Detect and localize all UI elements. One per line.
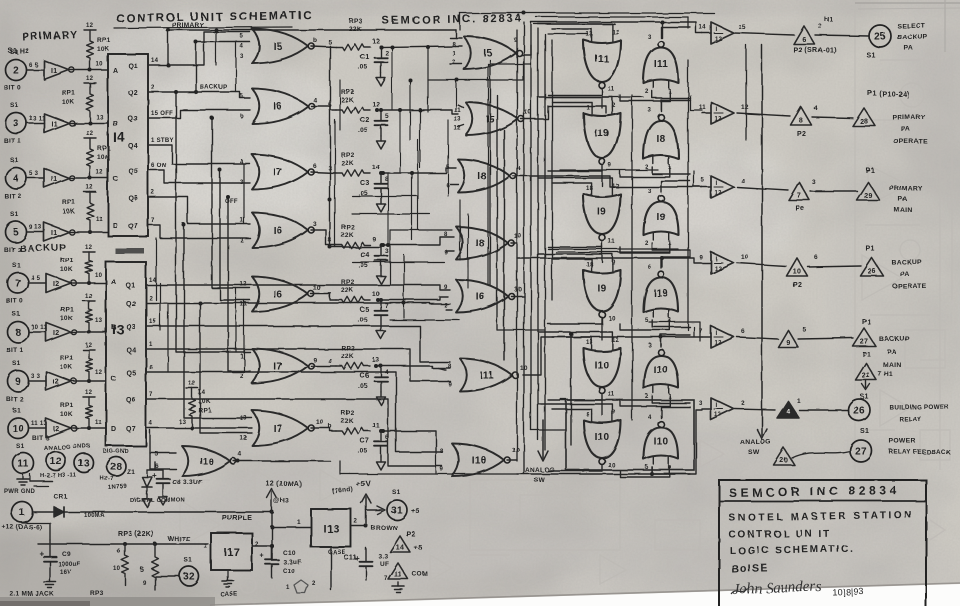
wire <box>311 365 336 367</box>
svg-text:3: 3 <box>648 343 652 349</box>
resistor RP2 row C3 <box>336 170 370 176</box>
wire <box>560 169 658 171</box>
wire <box>352 195 418 197</box>
svg-text:2: 2 <box>151 190 155 196</box>
or-gate I7 b <box>252 349 308 384</box>
svg-text:P1: P1 <box>862 319 871 326</box>
ground CASE I17 <box>227 577 229 581</box>
wire <box>652 410 702 474</box>
wire <box>447 120 449 196</box>
svg-text:PA: PA <box>887 349 897 356</box>
svg-text:P1: P1 <box>866 246 875 253</box>
wire <box>523 22 525 474</box>
wire <box>694 171 702 187</box>
svg-text:2.1 MM JACK: 2.1 MM JACK <box>10 591 54 598</box>
wire <box>552 183 592 188</box>
wire <box>538 178 612 188</box>
node <box>398 108 402 112</box>
wire <box>601 323 603 340</box>
svg-text:2: 2 <box>645 394 649 400</box>
svg-text:C3: C3 <box>360 180 370 187</box>
wire <box>552 102 592 107</box>
svg-text:1: 1 <box>297 519 301 526</box>
wire <box>148 225 250 238</box>
wire <box>311 172 336 173</box>
svg-text:CONTROL UN IT: CONTROL UN IT <box>729 528 831 541</box>
svg-text:2: 2 <box>151 85 155 91</box>
svg-text:2: 2 <box>444 303 448 309</box>
svg-text:ANALOG: ANALOG <box>525 467 555 474</box>
svg-text:PRIMARY: PRIMARY <box>172 22 204 29</box>
svg-text:PRIMARY: PRIMARY <box>22 29 79 43</box>
wire <box>551 40 553 300</box>
svg-text:7: 7 <box>384 576 388 582</box>
svg-text:PA: PA <box>900 271 910 278</box>
wire <box>311 294 336 300</box>
svg-text:BACKUP: BACKUP <box>891 259 922 266</box>
svg-text:RP1: RP1 <box>97 37 111 44</box>
wire curvy 20 to 27 <box>792 451 850 458</box>
node <box>418 108 422 112</box>
svg-text:RELAY: RELAY <box>899 416 922 423</box>
wire <box>146 399 442 466</box>
capacitor C10 <box>271 546 273 560</box>
wire <box>517 258 702 263</box>
node <box>88 230 92 234</box>
wire <box>523 337 702 375</box>
svg-text:5: 5 <box>240 34 244 40</box>
nor-gate I9 pair3L <box>584 194 621 234</box>
svg-text:I1θ: I1θ <box>472 456 487 467</box>
svg-text:12: 12 <box>86 131 94 137</box>
wire <box>450 183 458 185</box>
svg-text:13: 13 <box>372 357 380 364</box>
svg-text:10K: 10K <box>97 46 110 53</box>
jack tip marks <box>30 480 52 482</box>
wire <box>399 110 401 173</box>
svg-text:6 ON: 6 ON <box>151 163 166 169</box>
svg-text:BROWN: BROWN <box>371 525 398 532</box>
triangle Pe row3 <box>789 182 810 200</box>
wire <box>196 42 250 92</box>
svg-text:C4: C4 <box>360 252 370 259</box>
svg-text:9: 9 <box>143 581 147 587</box>
svg-text:Q6: Q6 <box>128 195 138 202</box>
wire <box>689 250 691 258</box>
svg-text:PRIMARY: PRIMARY <box>892 114 925 121</box>
svg-text:12: 12 <box>86 23 94 29</box>
wire <box>71 122 109 124</box>
wire <box>417 140 419 230</box>
nor-gate I10 pair5L <box>584 348 621 387</box>
node <box>660 256 664 260</box>
wire <box>548 33 588 35</box>
svg-text:10: 10 <box>514 233 522 240</box>
wire <box>271 512 273 560</box>
wire <box>446 309 452 311</box>
node <box>364 524 368 528</box>
wire <box>155 238 157 300</box>
wire <box>552 29 592 34</box>
svg-text:A: A <box>111 279 116 286</box>
wire <box>381 46 455 47</box>
svg-text:S1: S1 <box>10 157 19 164</box>
wire <box>168 32 250 65</box>
wire <box>661 407 690 418</box>
bottom white strip <box>210 584 960 606</box>
svg-text:6: 6 <box>313 163 317 170</box>
resistor RP2 row C7 <box>336 428 370 434</box>
triangle 26 out4 <box>861 258 884 276</box>
node <box>569 332 573 336</box>
arrow below 21 <box>865 381 867 388</box>
svg-text:2: 2 <box>255 542 259 548</box>
triangle 20 <box>774 448 795 465</box>
wire <box>168 30 456 65</box>
svg-text:12: 12 <box>715 191 723 197</box>
IC I13 <box>311 509 351 547</box>
svg-text:10K: 10K <box>60 411 73 418</box>
wire <box>503 130 505 360</box>
node <box>214 28 218 32</box>
capacitor C5 <box>380 300 382 311</box>
svg-text:b: b <box>240 114 244 120</box>
svg-text:10: 10 <box>372 291 380 298</box>
ground arrow C5 <box>380 326 382 331</box>
wire <box>652 320 690 327</box>
svg-text:5: 5 <box>802 326 806 333</box>
buffer I12 row2 <box>711 102 734 124</box>
ground arrow C8 <box>162 492 164 497</box>
svg-text:S1 H2: S1 H2 <box>8 48 29 55</box>
svg-text:6: 6 <box>814 254 818 261</box>
svg-text:RELAY FEEDBACK: RELAY FEEDBACK <box>889 449 951 456</box>
wire <box>459 200 461 260</box>
svg-text:13: 13 <box>179 420 187 426</box>
svg-text:I2: I2 <box>53 330 59 337</box>
svg-text:RP3: RP3 <box>90 590 104 597</box>
wire <box>702 186 711 188</box>
node <box>166 63 170 67</box>
svg-text:2: 2 <box>354 519 358 525</box>
wire <box>148 197 250 224</box>
svg-text:PRIMARY: PRIMARY <box>889 185 922 192</box>
resistor RP3 a <box>122 544 129 585</box>
wire <box>734 33 794 35</box>
wire <box>167 303 169 372</box>
svg-text:C1: C1 <box>360 54 370 61</box>
wire <box>511 295 524 297</box>
node <box>270 544 274 548</box>
wire <box>351 525 366 527</box>
wire <box>536 16 688 18</box>
node <box>379 171 383 175</box>
inverter I2 row10 <box>46 419 71 438</box>
svg-text:@H3: @H3 <box>274 498 290 505</box>
svg-text:22K: 22K <box>341 97 354 104</box>
wire <box>311 46 336 47</box>
svg-text:2: 2 <box>312 581 316 587</box>
wire <box>548 323 602 325</box>
svg-text:6: 6 <box>149 365 153 371</box>
wire <box>737 187 788 190</box>
svg-text:D: D <box>113 223 118 230</box>
svg-text:Q5: Q5 <box>126 370 136 377</box>
nor-gate I10 pair6R <box>644 428 679 460</box>
svg-text:20: 20 <box>780 458 788 465</box>
capacitor C7 <box>380 431 382 442</box>
wire <box>458 125 464 127</box>
wire <box>458 105 464 108</box>
node <box>270 544 274 548</box>
resistor RP2 row C6 <box>336 363 370 369</box>
svg-text:C10: C10 <box>283 550 296 557</box>
or-gate I8 c2a <box>458 160 510 193</box>
svg-text:+: + <box>260 553 264 560</box>
wire <box>548 399 602 401</box>
wire <box>620 396 670 406</box>
or-gate I5 c2a <box>464 37 516 70</box>
wire <box>649 322 700 341</box>
svg-text:RP1: RP1 <box>60 306 74 313</box>
svg-text:C5: C5 <box>360 307 370 314</box>
node <box>379 108 383 112</box>
wire <box>220 170 250 300</box>
svg-text:.05: .05 <box>358 383 368 390</box>
svg-text:1000uF: 1000uF <box>58 562 81 568</box>
svg-text:RP3 (22K): RP3 (22K) <box>118 531 154 538</box>
nor-gate I11 pair1L <box>584 40 621 82</box>
wire <box>428 62 523 80</box>
wire <box>330 246 381 248</box>
wire <box>660 337 662 347</box>
wire <box>334 120 336 247</box>
resistor RP1 row5 <box>84 191 96 193</box>
svg-text:31: 31 <box>391 506 403 517</box>
node <box>410 171 414 175</box>
wire <box>33 511 54 513</box>
node <box>190 426 194 430</box>
svg-text:8: 8 <box>444 232 448 238</box>
svg-text:2: 2 <box>818 23 822 30</box>
wire <box>702 32 711 34</box>
inverter I1 row3 <box>44 114 69 133</box>
svg-text:1: 1 <box>452 51 456 57</box>
svg-text:7: 7 <box>15 279 21 290</box>
svg-text:27: 27 <box>860 339 868 346</box>
svg-text:I9: I9 <box>598 207 607 218</box>
triangle 14 +5 <box>390 536 410 552</box>
ground arrow C7 <box>380 457 382 462</box>
svg-text:John Saunders: John Saunders <box>733 579 822 598</box>
svg-text:11: 11 <box>96 217 103 223</box>
wire <box>497 329 545 331</box>
svg-text:9: 9 <box>699 255 703 261</box>
svg-text:Q4: Q4 <box>126 347 136 354</box>
wire <box>620 243 670 253</box>
svg-text:2: 2 <box>385 50 389 57</box>
svg-text:D: D <box>111 426 116 433</box>
wire <box>339 80 341 130</box>
wire <box>693 327 695 337</box>
wire <box>71 177 109 179</box>
svg-text:RP1: RP1 <box>62 199 76 206</box>
svg-text:I7: I7 <box>273 424 282 435</box>
svg-text:S1: S1 <box>12 262 21 269</box>
wire <box>455 45 462 47</box>
svg-text:C9: C9 <box>62 551 71 558</box>
svg-text:12 (10MA): 12 (10MA) <box>266 481 302 488</box>
svg-text:C8 3.3UF: C8 3.3UF <box>172 479 202 486</box>
svg-text:+5V: +5V <box>356 479 372 489</box>
connector 28 <box>107 457 126 476</box>
svg-text:10K: 10K <box>62 99 75 106</box>
svg-text:3: 3 <box>648 35 652 41</box>
wire <box>531 22 702 55</box>
wire <box>661 181 690 192</box>
svg-text:RP2: RP2 <box>341 152 355 159</box>
svg-text:Q7: Q7 <box>128 223 138 230</box>
svg-text:WHITE: WHITE <box>168 536 191 543</box>
svg-text:10 11: 10 11 <box>31 325 48 331</box>
wire <box>538 97 612 107</box>
capacitor C11 <box>365 548 367 562</box>
wire <box>387 173 389 245</box>
wire <box>352 261 444 263</box>
node <box>379 45 383 49</box>
svg-text:1: 1 <box>149 342 153 348</box>
resistor RP1 row3 <box>84 82 96 84</box>
svg-text:RP2: RP2 <box>341 89 355 96</box>
wire <box>419 110 421 168</box>
wire <box>548 96 643 98</box>
svg-text:MAIN: MAIN <box>894 207 913 214</box>
svg-text:I8: I8 <box>478 172 487 183</box>
wire <box>661 258 663 267</box>
wire <box>184 225 252 418</box>
wire <box>146 372 442 452</box>
svg-text:4 5: 4 5 <box>31 276 41 282</box>
resistor RP1 b2 body row8 <box>86 301 93 331</box>
wire <box>517 473 652 475</box>
svg-text:CASE: CASE <box>220 592 238 598</box>
wire <box>411 173 413 240</box>
svg-text:Q6: Q6 <box>126 397 136 404</box>
svg-text:12: 12 <box>612 30 620 36</box>
svg-text:12: 12 <box>741 104 749 111</box>
wire <box>311 106 336 110</box>
svg-text:BACKUP: BACKUP <box>200 85 227 91</box>
node <box>270 525 274 529</box>
svg-text:5: 5 <box>240 94 244 100</box>
wire <box>735 409 775 410</box>
capacitor C9 <box>49 540 51 557</box>
wire <box>737 337 778 339</box>
svg-text:4: 4 <box>385 369 389 376</box>
svg-text:B: B <box>111 324 116 331</box>
capacitor C4 <box>380 245 382 256</box>
node <box>381 243 385 247</box>
wire <box>235 42 237 92</box>
svg-text:RP2: RP2 <box>341 279 355 286</box>
buffer I12 row6 <box>711 398 734 420</box>
wire <box>544 34 546 450</box>
or-gate I5 c2b <box>466 103 518 136</box>
node <box>87 426 91 430</box>
wire <box>252 545 272 547</box>
wire <box>272 526 311 528</box>
wire <box>737 263 786 266</box>
svg-text:I5: I5 <box>484 49 493 60</box>
node <box>166 28 170 32</box>
node <box>194 40 198 44</box>
svg-text:4: 4 <box>786 408 790 415</box>
svg-text:I1: I1 <box>51 121 57 128</box>
wire <box>450 37 462 39</box>
node <box>218 168 222 172</box>
wire <box>73 380 107 382</box>
svg-text:26: 26 <box>868 269 876 276</box>
wire <box>487 64 489 285</box>
capacitor C3 <box>380 173 382 184</box>
wire <box>154 462 156 470</box>
svg-text:12: 12 <box>612 184 620 190</box>
svg-text:5: 5 <box>701 178 705 184</box>
svg-text:I: I <box>716 331 718 337</box>
wire <box>340 461 517 474</box>
wire <box>403 255 405 318</box>
node <box>379 298 383 302</box>
svg-text:13: 13 <box>240 416 248 422</box>
wire <box>212 118 250 288</box>
connector J10 <box>8 418 29 439</box>
svg-text:+: + <box>152 471 157 480</box>
inverter I2 row7 <box>46 274 71 293</box>
svg-text:11 13: 11 13 <box>31 421 48 427</box>
node <box>88 121 92 125</box>
svg-text:10K: 10K <box>60 364 73 371</box>
svg-text:I10: I10 <box>654 437 669 448</box>
connector J7 <box>8 273 29 294</box>
wire <box>147 469 163 471</box>
buffer I12 row4 <box>711 252 734 274</box>
wire <box>538 404 612 414</box>
node <box>123 542 127 546</box>
svg-text:2: 2 <box>13 66 19 77</box>
svg-text:5 3: 5 3 <box>29 171 39 177</box>
node <box>386 243 390 247</box>
svg-text:C2: C2 <box>360 117 370 124</box>
wire <box>601 242 603 248</box>
svg-text:4: 4 <box>328 358 332 365</box>
connector J4 <box>6 168 27 189</box>
svg-text:12: 12 <box>86 185 94 191</box>
svg-text:9: 9 <box>313 357 317 364</box>
svg-text:6 5: 6 5 <box>29 63 39 69</box>
wire <box>737 113 790 116</box>
nor-gate I8 pair2R <box>644 121 679 160</box>
svg-text:6: 6 <box>385 434 389 441</box>
svg-text:DIG-GND: DIG-GND <box>103 449 129 455</box>
svg-text:Q1: Q1 <box>128 63 138 70</box>
svg-text:25: 25 <box>874 32 886 43</box>
ground arrow C2 <box>380 136 382 141</box>
svg-text:15: 15 <box>738 24 746 31</box>
svg-text:10K: 10K <box>60 266 73 273</box>
wire <box>73 331 107 333</box>
svg-text:7: 7 <box>797 193 801 200</box>
wire <box>381 110 458 114</box>
